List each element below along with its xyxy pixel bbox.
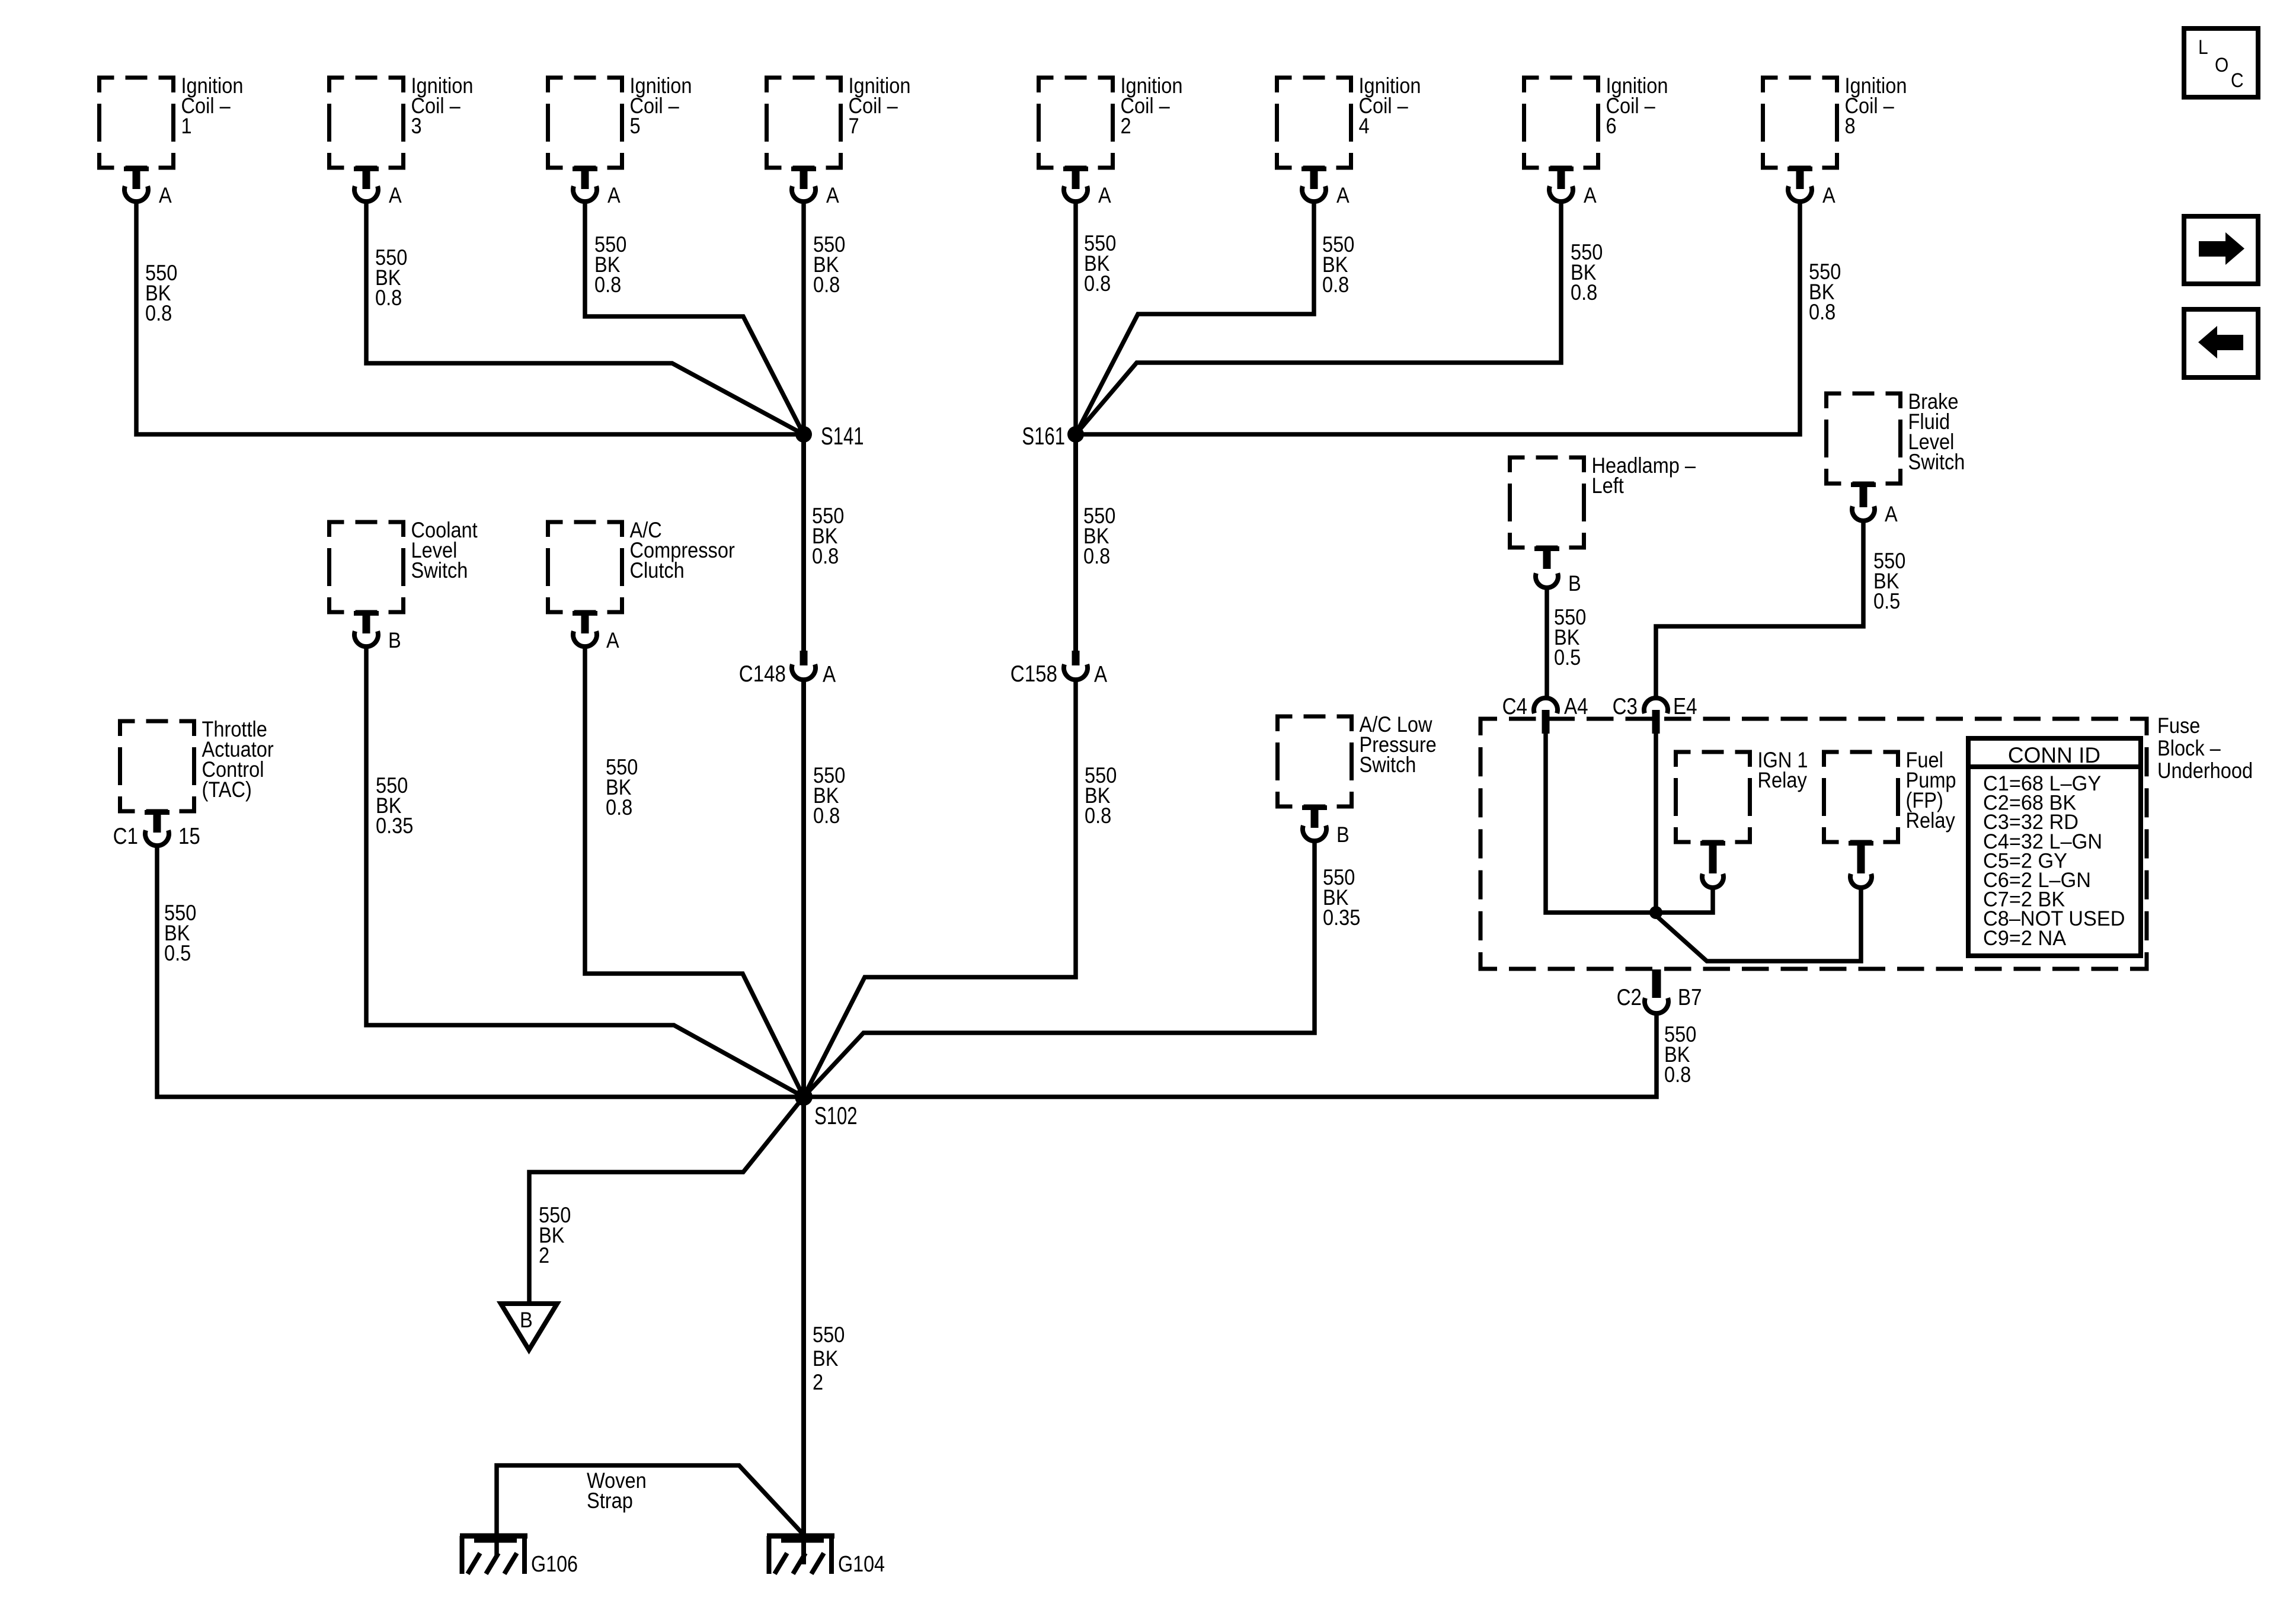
svg-text:C9=2 NA: C9=2 NA (1983, 927, 2067, 949)
ground G104 (767, 1534, 834, 1539)
fuel pump relay box (1824, 752, 1898, 842)
connector C148 pin A (800, 651, 808, 665)
wire S141 to C148 (801, 434, 806, 652)
svg-text:8: 8 (1845, 114, 1856, 138)
brake fluid level switch box (1827, 393, 1901, 484)
svg-text:550: 550 (813, 1323, 845, 1347)
svg-text:Clutch: Clutch (630, 558, 685, 582)
wire S102 to G104 (801, 1097, 806, 1564)
svg-text:1: 1 (181, 114, 192, 138)
svg-text:A: A (607, 183, 621, 207)
wire headlamp to C4/A4 (1544, 588, 1549, 699)
svg-text:E4: E4 (1673, 693, 1697, 719)
ignition coil 1 box (100, 78, 174, 168)
junction S161 (1067, 426, 1084, 443)
wire coil1 to S141 (136, 200, 804, 434)
ignition coil 3 connector pin A (354, 167, 379, 171)
wire brake fluid switch to C3/E4 (1656, 520, 1863, 699)
ignition coil 8 box (1763, 78, 1837, 168)
TAC connector C1 pin 15 (145, 810, 170, 815)
ignition coil 4 box (1277, 78, 1351, 168)
svg-text:B: B (520, 1308, 533, 1332)
right arrow box (2184, 216, 2258, 284)
ignition coil 2 connector pin A (1063, 167, 1088, 171)
svg-text:C2: C2 (1617, 984, 1642, 1010)
ignition coil 7 box (767, 78, 841, 168)
svg-text:2: 2 (813, 1370, 823, 1394)
svg-text:A: A (826, 183, 839, 207)
svg-text:Strap: Strap (587, 1489, 633, 1513)
svg-text:C1: C1 (113, 822, 138, 849)
wire coil2 to S161 (1073, 200, 1078, 434)
left arrow box (2184, 309, 2258, 377)
wire C2/B7 to S102 (804, 1013, 1657, 1097)
svg-text:5: 5 (630, 114, 641, 138)
wire coil3 to S141 (366, 200, 804, 434)
woven strap wire G106 to G104 (497, 1465, 804, 1555)
ignition coil 4 connector pin A (1302, 167, 1326, 171)
svg-text:Fuse: Fuse (2157, 713, 2200, 738)
svg-text:C4: C4 (1502, 693, 1527, 719)
A/C low pressure switch box (1278, 716, 1352, 806)
svg-text:2: 2 (539, 1243, 549, 1267)
headlamp connector pin B (1534, 546, 1559, 551)
svg-text:0.5: 0.5 (1554, 645, 1581, 670)
ground reference triangle B (501, 1304, 557, 1350)
svg-text:C3: C3 (1613, 693, 1638, 719)
wire coil5 to S141 (585, 200, 804, 434)
ignition coil 3 box (330, 78, 404, 168)
svg-text:A: A (389, 183, 402, 207)
wire A/C low pressure switch to S102 (804, 840, 1315, 1097)
ignition coil 2 box (1039, 78, 1113, 168)
svg-text:C: C (2231, 69, 2244, 91)
junction dot inside fuse block (1649, 906, 1662, 919)
svg-text:A: A (823, 661, 836, 687)
svg-text:Relay: Relay (1758, 768, 1808, 792)
svg-text:O: O (2215, 53, 2228, 76)
svg-text:0.5: 0.5 (1873, 589, 1900, 613)
junction S102 (795, 1088, 813, 1106)
svg-text:0.35: 0.35 (376, 814, 413, 838)
ignition coil 5 box (548, 78, 622, 168)
wire C4 to IGN 1 relay (1546, 734, 1713, 913)
wire coil8 to S161 (1076, 200, 1800, 434)
svg-text:0.5: 0.5 (164, 941, 191, 965)
svg-text:C148: C148 (739, 660, 786, 686)
svg-text:0.8: 0.8 (812, 544, 839, 568)
svg-text:0.8: 0.8 (606, 795, 632, 820)
svg-text:Switch: Switch (411, 558, 468, 582)
junction S141 (795, 426, 812, 443)
svg-text:Block –: Block – (2157, 736, 2221, 760)
svg-text:B: B (388, 628, 401, 652)
coolant level switch connector pin B (354, 611, 379, 616)
svg-text:A: A (159, 183, 172, 207)
svg-text:G104: G104 (838, 1552, 885, 1577)
svg-text:Switch: Switch (1360, 753, 1416, 777)
fuse block underhood dashed border (1480, 719, 2147, 969)
svg-text:2: 2 (1121, 114, 1131, 138)
svg-text:4: 4 (1359, 114, 1370, 138)
svg-text:S102: S102 (814, 1102, 858, 1129)
svg-text:CONN ID: CONN ID (2008, 743, 2100, 767)
throttle actuator control (TAC) box (120, 721, 194, 811)
svg-text:A: A (606, 628, 619, 652)
wire coil6 to S161 (1076, 200, 1561, 434)
svg-text:Underhood: Underhood (2157, 758, 2253, 783)
wire C3 to fuel pump relay (1656, 734, 1861, 961)
svg-text:0.8: 0.8 (1084, 271, 1111, 296)
connector C2 pin B7 (1652, 969, 1661, 998)
svg-text:L: L (2198, 36, 2208, 58)
svg-text:G106: G106 (531, 1552, 578, 1577)
svg-text:Relay: Relay (1906, 808, 1956, 833)
wire coil4 to S161 (1076, 200, 1314, 434)
A/C compressor clutch connector pin A (573, 611, 597, 616)
svg-text:0.8: 0.8 (1664, 1062, 1691, 1087)
headlamp left box (1510, 457, 1584, 548)
svg-text:3: 3 (411, 114, 422, 138)
svg-text:C158: C158 (1011, 660, 1057, 686)
wire TAC to S102 (157, 844, 804, 1097)
svg-text:A4: A4 (1564, 693, 1588, 719)
svg-text:S161: S161 (1022, 422, 1065, 450)
connector C3 pin E4 (1644, 698, 1668, 713)
svg-text:A: A (1885, 502, 1898, 526)
svg-text:Left: Left (1592, 473, 1625, 498)
ground G106 (460, 1534, 527, 1539)
svg-text:0.8: 0.8 (1085, 804, 1111, 828)
svg-text:0.8: 0.8 (145, 301, 172, 325)
brake fluid switch connector pin A (1851, 482, 1876, 487)
wire coolant level switch to S102 (366, 645, 804, 1097)
svg-text:Switch: Switch (1908, 450, 1965, 474)
IGN 1 relay connector (1700, 841, 1725, 846)
svg-text:0.8: 0.8 (1809, 300, 1835, 324)
wire S161 to C158 (1073, 434, 1078, 652)
ignition coil 8 connector pin A (1787, 167, 1812, 171)
ignition coil 5 connector pin A (573, 167, 597, 171)
svg-text:7: 7 (849, 114, 859, 138)
svg-text:6: 6 (1606, 114, 1617, 138)
fuel pump relay connector (1849, 841, 1873, 846)
svg-text:S141: S141 (821, 422, 864, 450)
connector C4 pin A4 (1534, 698, 1558, 713)
ignition coil 6 box (1524, 78, 1598, 168)
svg-text:A: A (1094, 661, 1108, 687)
wire coil7 to S141 (801, 200, 806, 434)
ignition coil 7 connector pin A (791, 167, 816, 171)
connector C158 pin A (1072, 651, 1080, 665)
CONN ID table (1968, 738, 2141, 956)
wire C158 to S102 (804, 680, 1076, 1097)
svg-text:A: A (1584, 183, 1597, 207)
svg-text:0.8: 0.8 (813, 804, 840, 828)
svg-text:A: A (1822, 183, 1835, 207)
svg-text:0.35: 0.35 (1323, 905, 1360, 930)
svg-text:BK: BK (813, 1346, 838, 1371)
svg-text:0.8: 0.8 (1322, 273, 1349, 297)
ignition coil 1 connector pin A (124, 167, 149, 171)
ignition coil 6 connector pin A (1549, 167, 1574, 171)
svg-text:0.8: 0.8 (375, 286, 402, 310)
wire S102 to ground symbol B (529, 1097, 804, 1302)
svg-text:A: A (1098, 183, 1111, 207)
coolant level switch box (330, 522, 404, 612)
A/C low pressure switch connector pin B (1302, 805, 1327, 810)
svg-text:A: A (1336, 183, 1350, 207)
svg-text:0.8: 0.8 (1571, 280, 1597, 305)
svg-text:0.8: 0.8 (813, 273, 840, 297)
svg-text:0.8: 0.8 (594, 273, 621, 297)
svg-text:(TAC): (TAC) (202, 777, 252, 802)
svg-text:0.8: 0.8 (1083, 544, 1110, 568)
svg-text:B7: B7 (1678, 984, 1702, 1010)
svg-text:15: 15 (178, 822, 200, 849)
wire A/C compressor clutch to S102 (585, 645, 804, 1097)
A/C compressor clutch box (548, 522, 622, 612)
wire C148 to S102 (801, 680, 806, 1097)
svg-text:B: B (1568, 571, 1581, 596)
svg-text:B: B (1336, 822, 1350, 847)
LOC legend box (2184, 28, 2258, 97)
IGN 1 relay box (1676, 752, 1750, 842)
